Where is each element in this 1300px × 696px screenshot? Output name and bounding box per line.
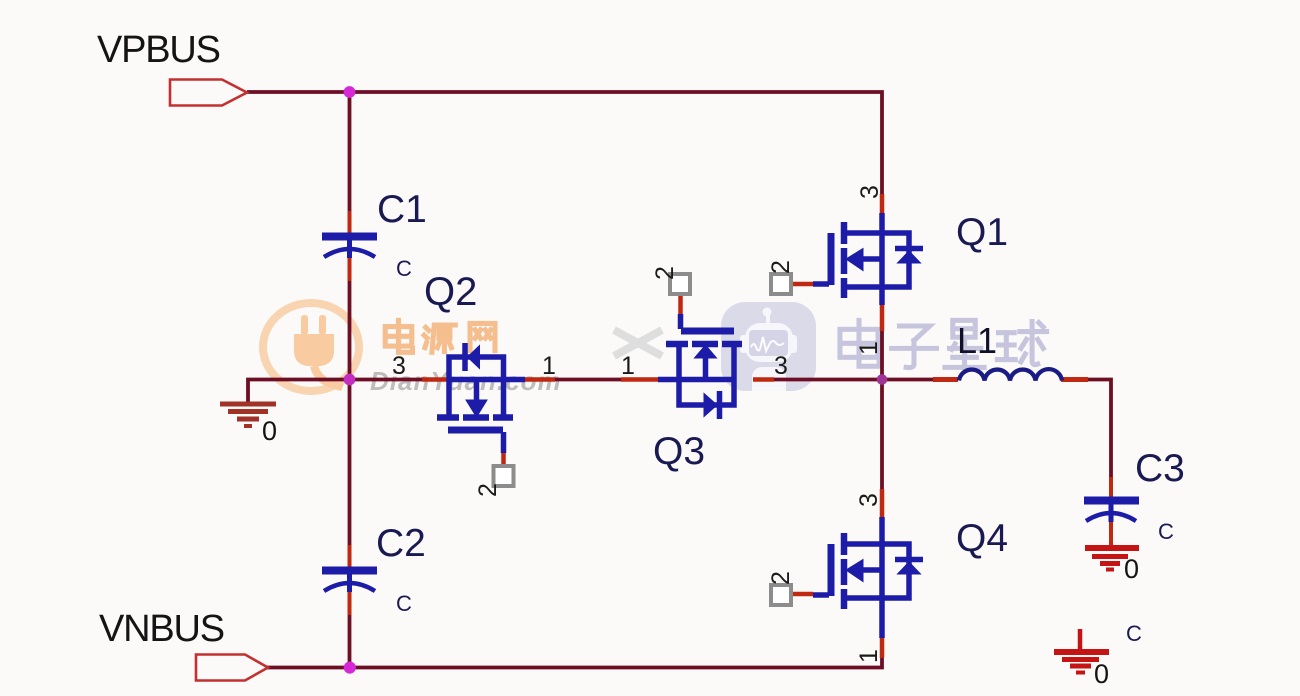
pin stub C1 top <box>348 211 352 234</box>
watermark dianzixingqiu chinese text <box>840 320 1047 367</box>
svg-text:3: 3 <box>856 185 884 199</box>
svg-text:C1: C1 <box>377 188 427 231</box>
svg-text:VNBUS: VNBUS <box>99 608 224 650</box>
pin stub C2 bottom <box>348 590 352 615</box>
watermark dianyuan chinese text <box>385 320 495 352</box>
pin stub L1 right <box>1061 377 1088 382</box>
pin stub C3 bottom <box>1109 520 1113 546</box>
svg-text:2: 2 <box>767 260 795 274</box>
svg-text:1: 1 <box>855 649 883 663</box>
watermark dianyuan ring <box>263 303 359 391</box>
pin stub Q2 pin2 <box>501 453 506 466</box>
capacitor C2 <box>322 571 377 593</box>
ground 0 under C3 <box>1085 548 1139 570</box>
pin stub Q3 pin3 <box>753 377 774 382</box>
ground 0 bottom right <box>1054 629 1109 673</box>
svg-text:C: C <box>1126 621 1142 646</box>
svg-text:3: 3 <box>392 352 406 380</box>
svg-text:Q2: Q2 <box>424 270 477 314</box>
svg-text:C: C <box>396 591 412 616</box>
wire top bus VPBUS <box>247 92 882 207</box>
svg-text:C3: C3 <box>1135 447 1185 490</box>
svg-text:Q4: Q4 <box>956 517 1008 560</box>
transistor Q4 <box>813 517 923 638</box>
gate pad Q1 pin2 <box>771 274 791 294</box>
pin stub Q1 pin2 <box>792 282 813 287</box>
pin stub Q2 pin1 <box>525 377 555 382</box>
svg-text:C: C <box>1158 519 1174 544</box>
gate pad Q4 pin2 <box>771 585 791 605</box>
junction node VNBUS-C2 <box>344 662 356 674</box>
wire right bus Q1 to Q4 <box>880 330 884 489</box>
pin stub Q2 pin3 <box>422 377 447 382</box>
transistor Q3 <box>658 314 742 419</box>
junction node mid-left <box>344 374 356 386</box>
pin stub L1 left <box>933 377 958 382</box>
pin stub Q1 pin3 <box>880 194 885 214</box>
watermark robot logo <box>721 302 816 391</box>
inductor L1 <box>959 369 1062 380</box>
transistor Q2 <box>437 343 525 453</box>
gate pad Q2 pin2 <box>494 466 514 486</box>
watermark gray X <box>614 330 662 356</box>
ground 0 left <box>220 404 276 426</box>
svg-text:Q1: Q1 <box>956 211 1008 254</box>
junction node VPBUS-C1 <box>344 86 356 98</box>
svg-text:0: 0 <box>262 416 277 446</box>
svg-text:3: 3 <box>774 352 788 380</box>
pin stub Q1 pin1 <box>880 305 885 331</box>
svg-text:0: 0 <box>1094 659 1109 689</box>
watermark dianyuan plug icon <box>294 315 344 391</box>
svg-text:1: 1 <box>542 352 556 380</box>
wire L1 to C3 <box>1087 380 1111 479</box>
pin stub Q3 pin1 <box>621 377 659 382</box>
svg-text:VPBUS: VPBUS <box>97 29 220 71</box>
wire left bus vertical <box>348 92 352 668</box>
svg-text:L1: L1 <box>957 320 997 361</box>
wire mid left to Q2 <box>350 378 425 382</box>
svg-text:2: 2 <box>767 571 795 585</box>
svg-text:1: 1 <box>621 352 635 380</box>
svg-text:C: C <box>396 256 412 281</box>
gate pad Q3 pin2 <box>670 274 690 294</box>
wire Q3 to L1 <box>773 378 934 382</box>
pin stub C2 top <box>348 545 352 568</box>
svg-text:0: 0 <box>1124 554 1139 584</box>
junction node phase <box>877 374 888 385</box>
svg-text:2: 2 <box>474 483 502 497</box>
wire ground stub left <box>248 380 350 405</box>
svg-text:2: 2 <box>651 266 679 280</box>
svg-text:C2: C2 <box>376 522 426 565</box>
port VNBUS <box>196 655 268 681</box>
wire bottom bus VNBUS <box>266 646 882 668</box>
capacitor C1 <box>322 237 377 259</box>
capacitor C3 <box>1084 501 1139 523</box>
transistor Q1 <box>813 213 923 305</box>
pin stub Q4 pin3 <box>880 489 885 517</box>
svg-text:1: 1 <box>855 341 883 355</box>
svg-text:Q3: Q3 <box>653 430 705 473</box>
pin stub Q4 pin2 <box>792 592 813 597</box>
port VPBUS <box>170 80 247 106</box>
pin stub Q3 pin2 <box>678 294 683 314</box>
wire Q2 to Q3 <box>553 378 623 382</box>
pin stub C1 bottom <box>348 258 352 281</box>
pin stub C3 top <box>1109 477 1113 498</box>
pin stub Q4 pin1 <box>880 638 885 658</box>
svg-text:3: 3 <box>855 493 883 507</box>
